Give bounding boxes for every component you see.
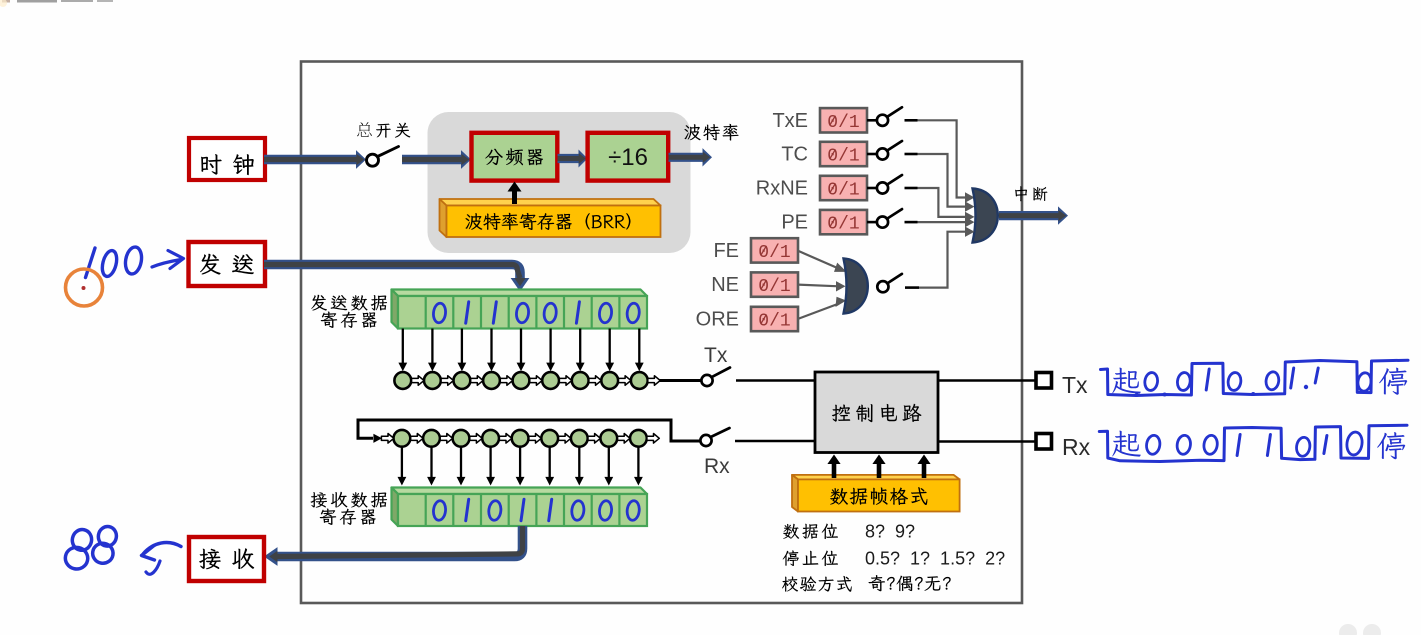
switch TxE interrupt-enable — [877, 107, 902, 126]
annotation curved arrow to 88 — [142, 543, 182, 575]
wire TxE box to switch — [867, 119, 877, 122]
svg-text:0.5? 1? 1.5? 2?: 0.5? 1? 1.5? 2? — [865, 549, 1005, 569]
annotation arrow 100 to send — [152, 251, 184, 269]
switch TC interrupt-enable — [877, 141, 902, 160]
wire FE to error OR gate — [798, 251, 847, 272]
wire Tx switch to control circuit — [736, 379, 815, 382]
label TxE flag — [772, 110, 808, 132]
RX shift register (9 bit cells) — [381, 430, 659, 447]
svg-text:÷16: ÷16 — [608, 144, 648, 171]
svg-text:0/1: 0/1 — [827, 181, 859, 201]
wire send to TX register (elbow) — [264, 265, 529, 292]
flag register FE 0/1 — [751, 238, 798, 263]
label Tx (internal) — [704, 344, 728, 367]
decorative top-edge marks — [0, 0, 113, 7]
wire RxNE switch stub — [905, 187, 918, 190]
svg-text:Tx: Tx — [1062, 372, 1088, 398]
label 波特率 (baud rate) — [685, 124, 739, 141]
svg-text:0/1: 0/1 — [758, 277, 790, 297]
wire TC box to switch — [867, 153, 877, 156]
wire PE box to switch — [867, 221, 877, 224]
switch RxNE interrupt-enable — [877, 175, 902, 194]
wire PE switch stub — [905, 221, 918, 224]
wires frame format to control circuit — [827, 455, 930, 479]
wire interrupt output — [999, 206, 1068, 224]
wire switch to divider — [402, 150, 471, 169]
wire ORE to error OR gate — [798, 297, 846, 319]
annotation Tx waveform 起00100110停 — [1101, 360, 1409, 397]
wire baud-rate output — [669, 148, 713, 166]
label Rx pin — [1062, 434, 1091, 460]
switch error-interrupt enable — [877, 274, 902, 292]
label ORE flag — [696, 309, 739, 331]
baud generator background — [428, 112, 691, 253]
register TX data (TDR) — [392, 290, 648, 329]
block 发送 (send) — [189, 242, 266, 286]
wire NE to error OR gate — [798, 281, 846, 291]
label 中断 (interrupt) — [1015, 186, 1047, 201]
annotation handwritten 88 — [63, 525, 118, 571]
wire control to Rx pin — [938, 440, 1035, 443]
wire BRR to divider — [508, 182, 522, 205]
annotation Rx waveform 起00011010停 — [1099, 425, 1407, 461]
svg-text:0/1: 0/1 — [827, 215, 859, 235]
block 时钟 (clock) — [189, 138, 265, 180]
annotation orange circle marker — [66, 269, 103, 306]
label 停止位 (stop bits) — [783, 550, 838, 566]
switch Tx enable — [701, 368, 730, 387]
label RxNE flag — [756, 178, 808, 200]
switch Rx enable — [700, 428, 729, 446]
register 波特率寄存器 BRR — [440, 199, 661, 237]
label Rx (internal) — [704, 455, 730, 478]
flag register TxE 0/1 — [820, 108, 867, 133]
label 接收数据寄存器 (RX data register) — [311, 492, 388, 525]
TX shift register (9 bit cells) — [394, 372, 660, 389]
label Tx pin — [1062, 372, 1088, 398]
wire TC to interrupt OR gate — [918, 154, 975, 212]
pin Tx (pad) — [1036, 373, 1052, 389]
wire control to Tx pin — [938, 379, 1035, 382]
wire clock to master switch — [264, 150, 366, 169]
decorative faint watermark — [1339, 624, 1381, 635]
register 数据帧格式 (frame format) — [792, 475, 960, 512]
label FE flag — [713, 240, 739, 262]
register RX data (RDR) — [392, 488, 648, 527]
USART peripheral boundary — [301, 62, 1022, 604]
block 接收 (receive) — [189, 537, 264, 581]
svg-text:PE: PE — [781, 212, 808, 234]
wire PE to interrupt OR gate — [918, 217, 975, 227]
wire TC switch stub — [905, 153, 918, 156]
svg-text:ORE: ORE — [696, 309, 739, 331]
label data bits options 8? 9? — [865, 522, 915, 542]
svg-text:0/1: 0/1 — [758, 243, 790, 263]
label TC flag — [781, 144, 808, 166]
label 校验方式 (parity) — [782, 576, 852, 592]
RX register bit values 01011000 — [433, 499, 641, 521]
wire Rx switch to RX shift register (feedback loop) — [358, 420, 700, 443]
label PE flag — [781, 212, 808, 234]
wires RX shift to RX register — [398, 447, 643, 486]
block ÷16 (U-BRG2) — [588, 133, 669, 181]
block 控制电路 (control circuit) — [815, 372, 938, 453]
svg-text:Tx: Tx — [704, 344, 728, 367]
wire RX register to receive (elbow) — [264, 526, 523, 566]
wire Rx switch to control circuit — [735, 440, 815, 443]
wires TX register to shift register — [398, 329, 643, 372]
label NE flag — [711, 274, 739, 296]
wire TX shift to Tx switch — [659, 379, 701, 382]
switch master (总开关) — [367, 147, 399, 167]
wire error switch stub — [905, 286, 919, 289]
svg-text:Rx: Rx — [704, 455, 730, 478]
svg-text:RxNE: RxNE — [756, 178, 808, 200]
wire RxNE box to switch — [867, 187, 877, 190]
wire RxNE to interrupt OR gate — [918, 188, 975, 222]
svg-text:FE: FE — [713, 240, 739, 262]
svg-text:0/1: 0/1 — [827, 147, 859, 167]
pin Rx (pad) — [1036, 434, 1052, 450]
OR gate interrupt (top) — [973, 189, 998, 243]
label 数据位 (data bits) — [783, 524, 838, 540]
svg-text:8? 9?: 8? 9? — [865, 522, 915, 542]
flag register NE 0/1 — [751, 272, 798, 297]
block 分频器 (divider) U-BRG1 — [472, 133, 558, 181]
svg-text:0/1: 0/1 — [827, 113, 859, 133]
wire TxE to interrupt OR gate — [918, 120, 975, 202]
label 发送数据寄存器 (TX data register) — [311, 295, 387, 328]
svg-text:NE: NE — [711, 274, 739, 296]
label stop bits options — [865, 549, 1005, 569]
flag register ORE 0/1 — [751, 307, 798, 332]
OR gate error (lower) — [844, 259, 868, 314]
wire divider to div16 — [558, 150, 588, 168]
switch PE interrupt-enable — [877, 209, 902, 228]
TX register bit values 01100100 — [433, 302, 641, 324]
svg-text:TC: TC — [781, 144, 808, 166]
flag register TC 0/1 — [820, 142, 867, 167]
flag register PE 0/1 — [820, 210, 867, 235]
flag register RxNE 0/1 — [820, 176, 867, 201]
svg-text:Rx: Rx — [1062, 434, 1091, 460]
wire error switch to interrupt OR gate — [919, 227, 975, 288]
wire TxE switch stub — [905, 119, 918, 122]
label parity options 奇?偶?无? — [869, 575, 951, 591]
annotation handwritten 100 — [86, 246, 144, 278]
svg-text:0/1: 0/1 — [758, 312, 790, 332]
svg-text:TxE: TxE — [772, 110, 808, 132]
label 总开关 (master switch) — [357, 122, 410, 138]
